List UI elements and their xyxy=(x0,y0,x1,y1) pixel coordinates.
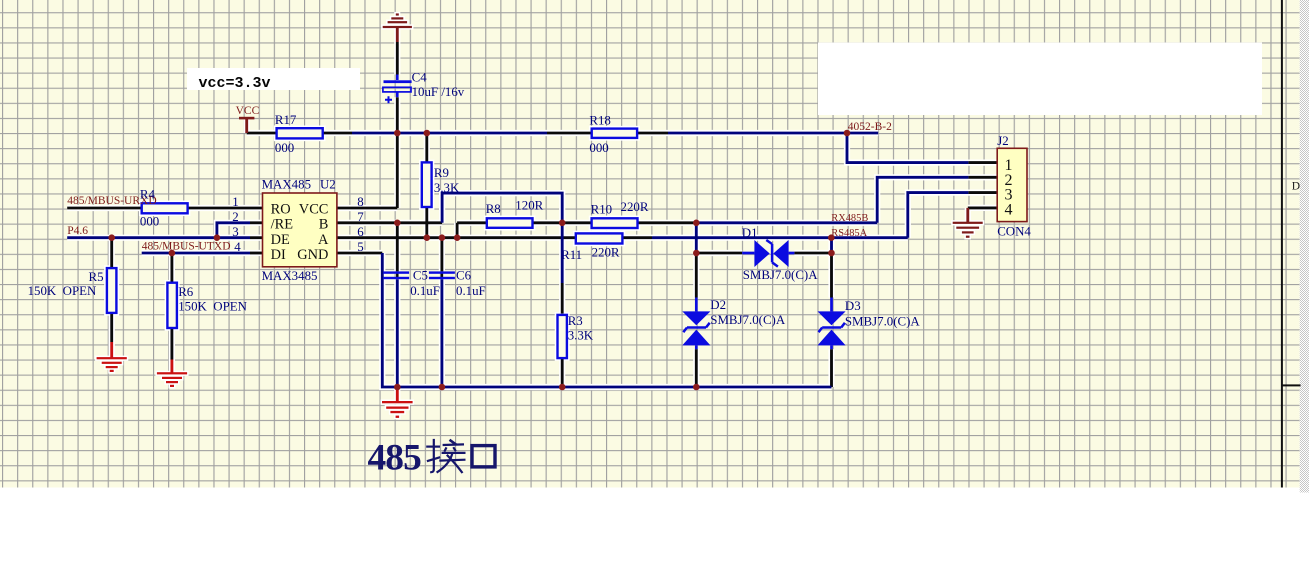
svg-text:7: 7 xyxy=(357,210,364,224)
svg-text:000: 000 xyxy=(589,141,608,155)
svg-text:VCC: VCC xyxy=(236,105,260,117)
svg-text:220R: 220R xyxy=(621,200,649,214)
svg-text:C6: C6 xyxy=(456,269,472,283)
svg-text:GND: GND xyxy=(297,247,328,263)
svg-text:6: 6 xyxy=(357,225,364,239)
svg-text:R6: R6 xyxy=(178,285,194,299)
svg-text:485/MBUS-UTXD: 485/MBUS-UTXD xyxy=(142,241,231,253)
svg-text:3: 3 xyxy=(232,225,238,239)
svg-text:R10: R10 xyxy=(591,203,613,217)
svg-text:DI: DI xyxy=(271,247,286,263)
svg-text:R9: R9 xyxy=(434,166,449,180)
svg-text:P4.6: P4.6 xyxy=(67,225,88,237)
svg-text:150K OPEN: 150K OPEN xyxy=(28,284,97,298)
svg-text:150K OPEN: 150K OPEN xyxy=(178,299,247,313)
svg-text:/RE: /RE xyxy=(271,216,294,232)
svg-text:B: B xyxy=(319,216,329,232)
svg-text:R11: R11 xyxy=(561,248,582,262)
svg-text:D: D xyxy=(1292,180,1300,192)
svg-text:0.1uF: 0.1uF xyxy=(456,284,486,298)
svg-text:8: 8 xyxy=(357,195,363,209)
svg-text:4: 4 xyxy=(234,240,241,254)
svg-text:R18: R18 xyxy=(589,114,611,128)
svg-text:R5: R5 xyxy=(89,270,104,284)
svg-text:10uF /16v: 10uF /16v xyxy=(412,85,465,99)
svg-text:RX485B: RX485B xyxy=(831,213,868,224)
svg-text:120R: 120R xyxy=(515,199,543,213)
svg-text:SMBJ7.0(C)A: SMBJ7.0(C)A xyxy=(743,268,819,282)
svg-text:RO: RO xyxy=(271,201,291,217)
svg-text:1: 1 xyxy=(232,195,238,209)
svg-text:SMBJ7.0(C)A: SMBJ7.0(C)A xyxy=(845,314,921,328)
svg-text:R17: R17 xyxy=(275,113,297,127)
svg-text:R8: R8 xyxy=(486,202,501,216)
svg-text:3.3K: 3.3K xyxy=(434,181,460,195)
svg-text:CON4: CON4 xyxy=(997,225,1031,239)
svg-text:2: 2 xyxy=(232,210,238,224)
svg-text:220R: 220R xyxy=(592,246,620,260)
svg-text:DE: DE xyxy=(271,232,290,248)
svg-text:C4: C4 xyxy=(412,71,428,85)
svg-text:4: 4 xyxy=(1005,201,1013,218)
svg-text:C5: C5 xyxy=(413,269,428,283)
svg-text:D1: D1 xyxy=(742,226,758,240)
svg-text:D2: D2 xyxy=(710,298,726,312)
svg-text:5: 5 xyxy=(357,240,363,254)
svg-text:VCC: VCC xyxy=(299,201,329,217)
svg-text:000: 000 xyxy=(140,215,159,229)
svg-text:485: 485 xyxy=(368,438,422,479)
svg-text:U2: U2 xyxy=(320,177,336,191)
svg-text:MAX3485: MAX3485 xyxy=(262,269,318,283)
svg-text:R4: R4 xyxy=(140,188,156,202)
svg-text:vcc=3.3v: vcc=3.3v xyxy=(199,75,271,92)
svg-text:RS485A: RS485A xyxy=(831,228,867,239)
svg-text:4052-B-2: 4052-B-2 xyxy=(848,121,892,133)
svg-text:0.1uF: 0.1uF xyxy=(410,284,440,298)
svg-text:D3: D3 xyxy=(845,299,861,313)
svg-text:J2: J2 xyxy=(997,134,1008,148)
svg-text:MAX485: MAX485 xyxy=(262,177,311,191)
svg-text:SMBJ7.0(C)A: SMBJ7.0(C)A xyxy=(710,313,786,327)
svg-text:R3: R3 xyxy=(568,314,583,328)
svg-text:000: 000 xyxy=(275,141,294,155)
svg-text:3.3K: 3.3K xyxy=(568,328,594,342)
svg-text:A: A xyxy=(318,232,329,248)
